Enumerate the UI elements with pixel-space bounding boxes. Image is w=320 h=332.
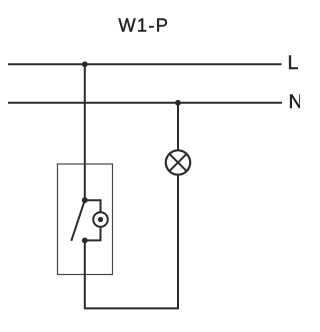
svg-text:N: N — [289, 91, 301, 113]
svg-text:L: L — [288, 52, 299, 74]
svg-text:W1-P: W1-P — [118, 15, 169, 36]
